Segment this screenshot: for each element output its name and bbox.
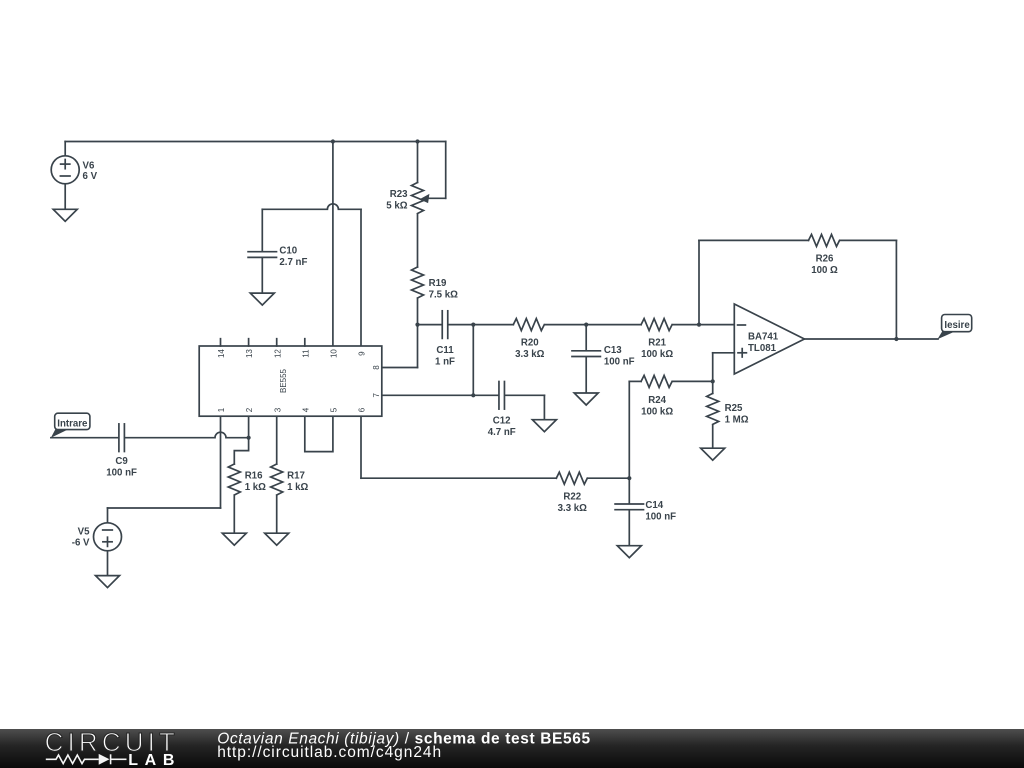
svg-text:V6: V6 <box>83 161 95 172</box>
svg-text:6: 6 <box>358 407 367 412</box>
svg-text:1 kΩ: 1 kΩ <box>287 482 308 493</box>
svg-text:R19: R19 <box>429 278 447 289</box>
svg-text:http://circuitlab.com/c4gn24h: http://circuitlab.com/c4gn24h <box>217 744 442 761</box>
svg-text:2: 2 <box>245 407 254 412</box>
svg-text:7: 7 <box>372 393 381 398</box>
svg-text:R20: R20 <box>521 338 539 349</box>
svg-text:C10: C10 <box>279 246 297 257</box>
svg-text:1 nF: 1 nF <box>435 357 455 368</box>
svg-text:100 kΩ: 100 kΩ <box>641 349 673 360</box>
svg-text:1: 1 <box>217 407 226 412</box>
svg-text:LAB: LAB <box>128 752 181 768</box>
svg-text:10: 10 <box>330 349 339 358</box>
svg-text:C9: C9 <box>115 456 128 467</box>
svg-text:-6 V: -6 V <box>72 538 90 549</box>
svg-text:6 V: 6 V <box>83 171 98 182</box>
svg-text:C12: C12 <box>493 416 511 427</box>
svg-text:100 kΩ: 100 kΩ <box>641 406 673 417</box>
svg-text:V5: V5 <box>78 527 90 538</box>
svg-text:R26: R26 <box>816 254 834 265</box>
svg-text:4: 4 <box>301 407 310 412</box>
svg-text:Iesire: Iesire <box>944 320 970 331</box>
svg-text:R21: R21 <box>648 337 666 348</box>
svg-text:BA741: BA741 <box>748 331 779 342</box>
svg-text:5: 5 <box>330 407 339 412</box>
svg-text:3.3 kΩ: 3.3 kΩ <box>558 503 588 514</box>
svg-text:9: 9 <box>358 351 367 356</box>
svg-text:11: 11 <box>301 349 310 358</box>
svg-text:4.7 nF: 4.7 nF <box>488 427 516 438</box>
svg-text:R25: R25 <box>725 403 743 414</box>
svg-text:12: 12 <box>273 349 282 358</box>
svg-text:R22: R22 <box>563 492 581 503</box>
svg-text:1 MΩ: 1 MΩ <box>725 415 749 426</box>
svg-text:1 kΩ: 1 kΩ <box>245 482 266 493</box>
svg-text:C11: C11 <box>436 345 454 356</box>
svg-text:7.5 kΩ: 7.5 kΩ <box>429 289 459 300</box>
svg-text:R24: R24 <box>648 395 666 406</box>
svg-text:TL081: TL081 <box>748 343 777 354</box>
svg-text:Intrare: Intrare <box>57 418 88 429</box>
svg-text:14: 14 <box>217 349 226 358</box>
svg-text:R16: R16 <box>245 470 263 481</box>
svg-text:100 nF: 100 nF <box>604 356 635 367</box>
svg-text:C14: C14 <box>645 500 663 511</box>
svg-text:R17: R17 <box>287 470 305 481</box>
svg-text:8: 8 <box>372 365 381 370</box>
svg-text:R23: R23 <box>390 189 408 200</box>
svg-text:100 nF: 100 nF <box>645 512 676 523</box>
svg-text:2.7 nF: 2.7 nF <box>279 257 307 268</box>
svg-text:100 Ω: 100 Ω <box>811 265 838 276</box>
svg-text:BE555: BE555 <box>279 368 288 393</box>
svg-text:3: 3 <box>273 407 282 412</box>
svg-text:100 nF: 100 nF <box>106 468 137 479</box>
svg-text:5 kΩ: 5 kΩ <box>386 201 407 212</box>
svg-text:C13: C13 <box>604 345 622 356</box>
svg-text:13: 13 <box>245 349 254 358</box>
svg-text:3.3 kΩ: 3.3 kΩ <box>515 349 545 360</box>
